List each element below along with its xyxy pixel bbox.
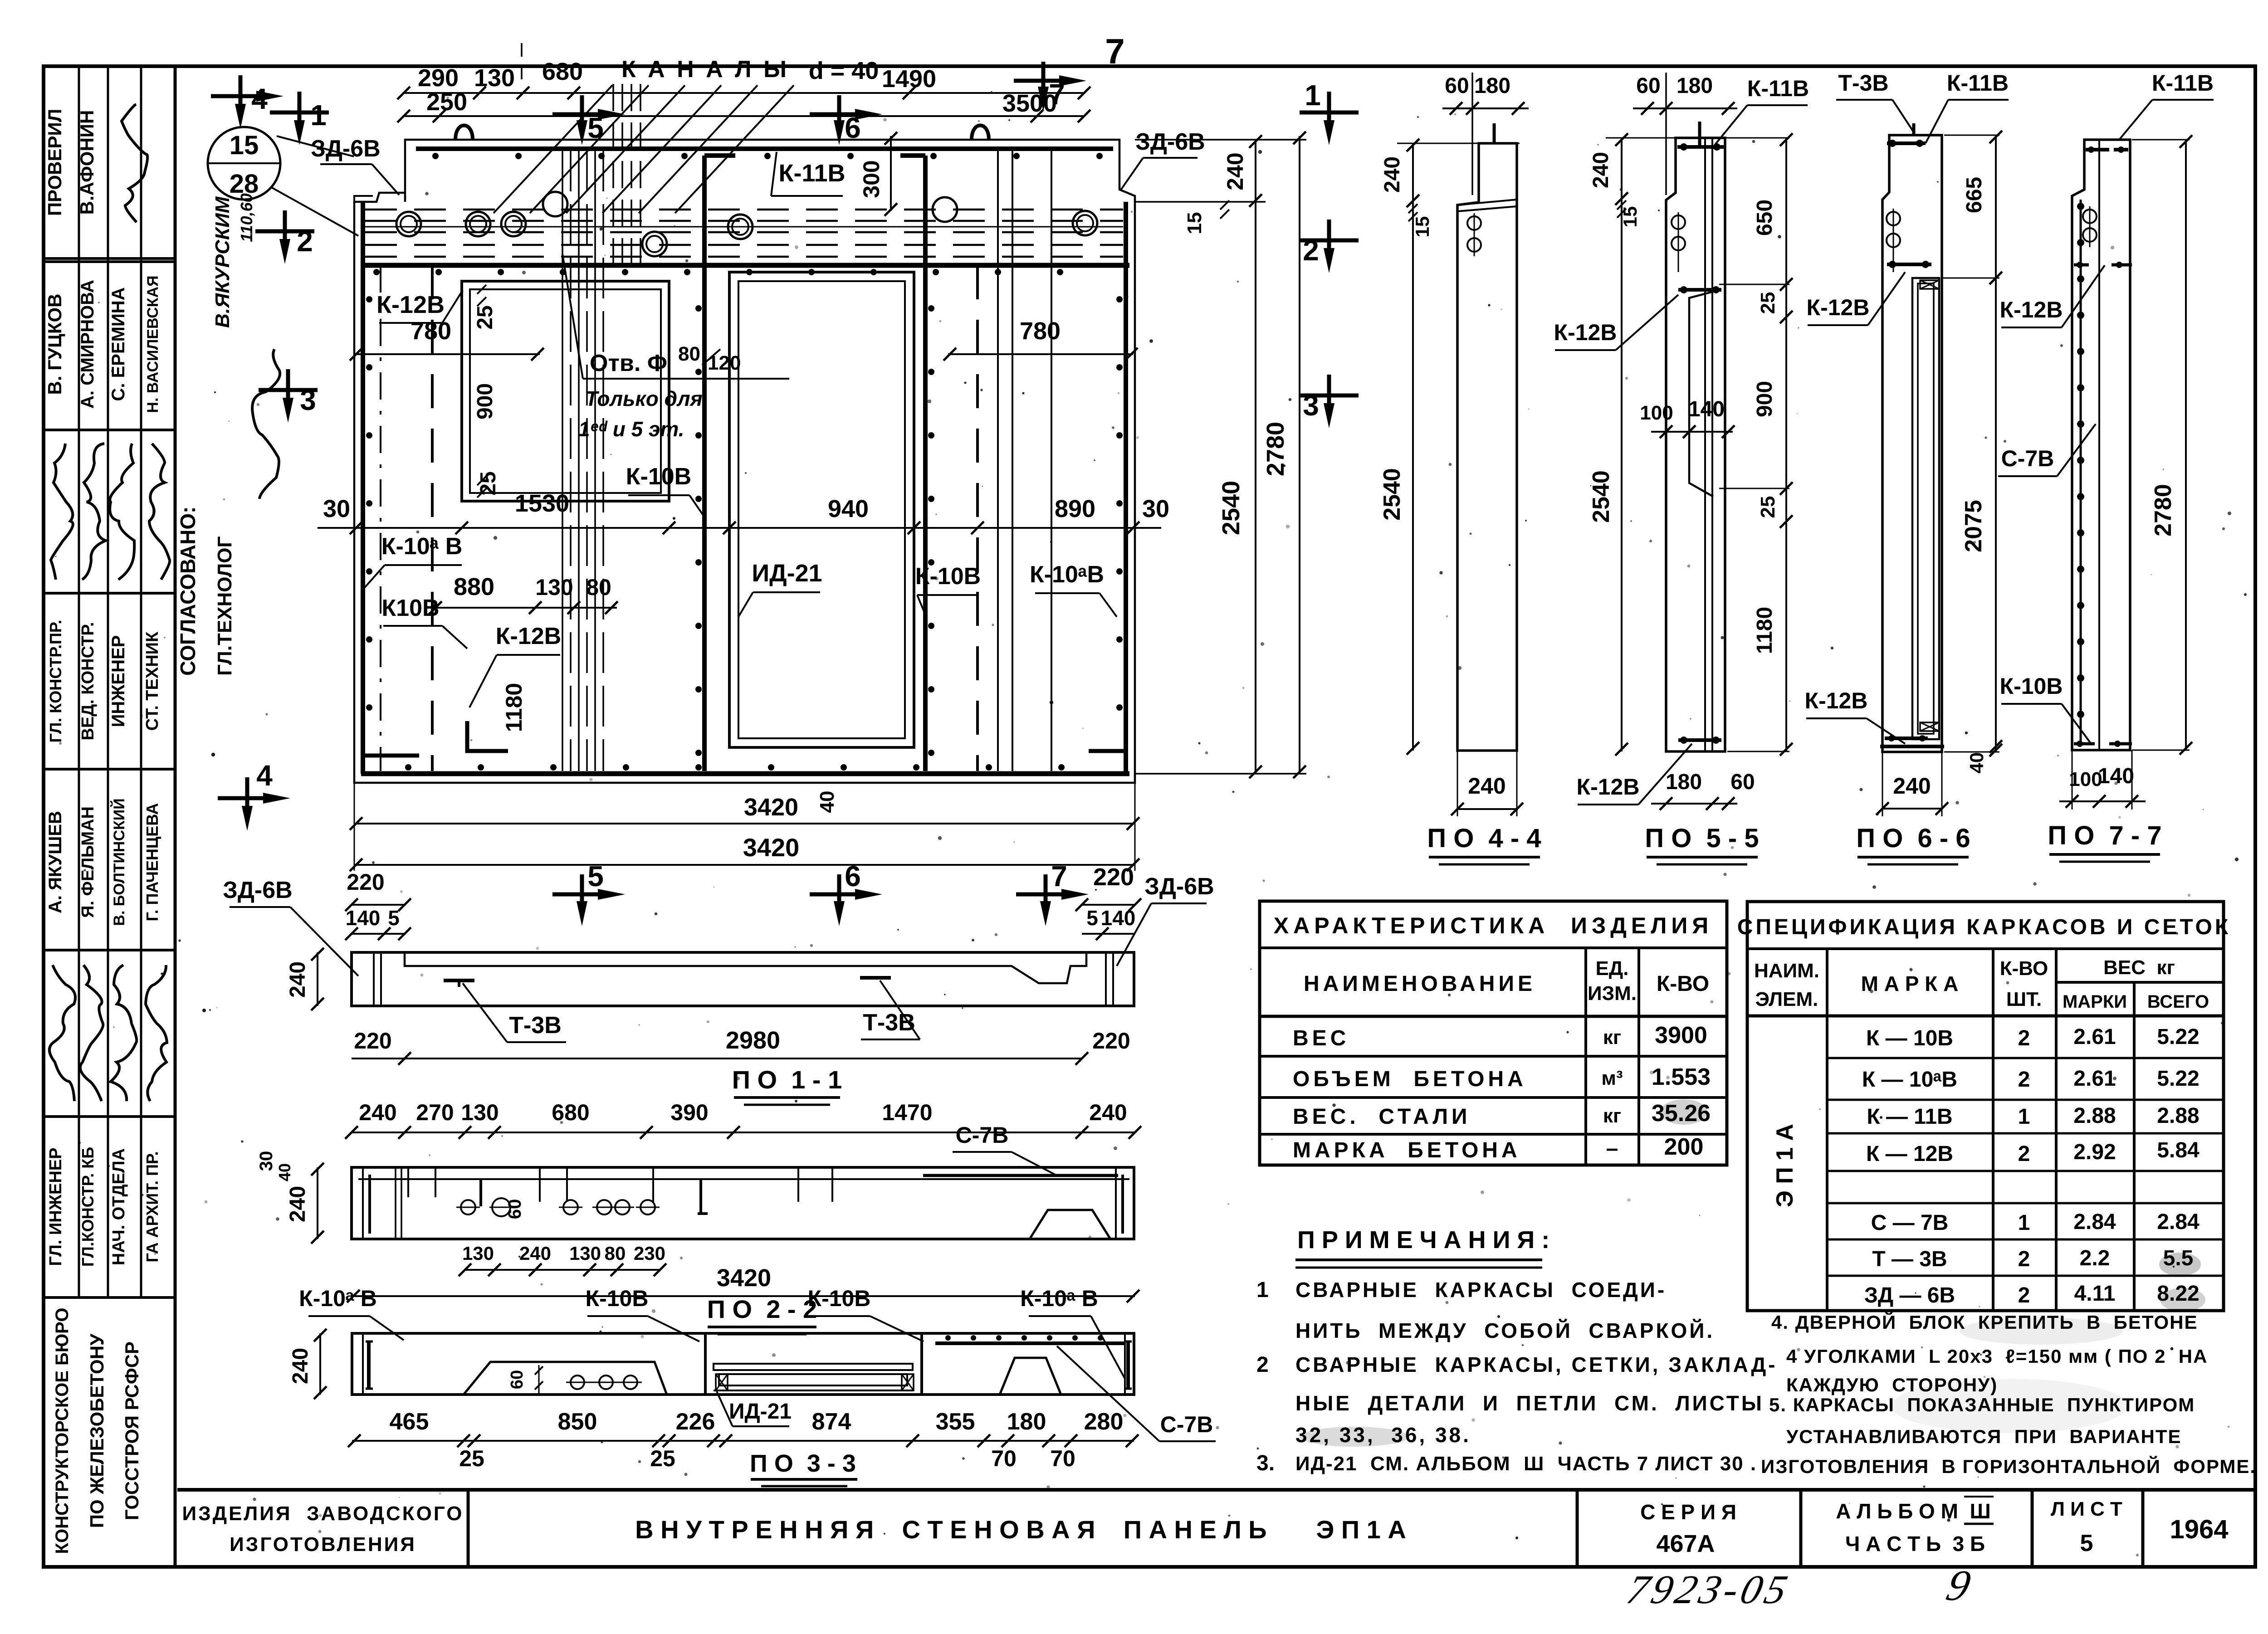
svg-text:880: 880 (454, 573, 494, 600)
title block top line (177, 1488, 2255, 1492)
svg-text:К-11В: К-11В (1747, 76, 1809, 101)
svg-text:465: 465 (390, 1409, 429, 1435)
svg-text:ЗД-6В: ЗД-6В (223, 877, 292, 903)
svg-text:1180: 1180 (1753, 607, 1777, 654)
svg-text:С Е Р И Я: С Е Р И Я (1640, 1500, 1736, 1524)
section 2-2 dim 240 rotated (317, 1167, 318, 1239)
svg-text:3420: 3420 (717, 1264, 771, 1292)
vertical dash guide above sheet top (521, 43, 523, 83)
section 2-2 dims top (352, 1132, 1135, 1133)
strip row: signatures 2 (49, 965, 75, 1101)
svg-text:250: 250 (426, 88, 467, 116)
svg-text:940: 940 (828, 495, 869, 522)
right horizontal dim connectors (1135, 139, 1306, 141)
section marker 3 left (259, 388, 318, 392)
svg-text:1490: 1490 (882, 65, 936, 93)
svg-text:467А: 467А (1656, 1530, 1715, 1557)
section 4-4 dim 240 rotated (1412, 143, 1414, 202)
svg-text:К-10ᵃВ: К-10ᵃВ (1030, 561, 1104, 588)
svg-text:А. СМИРНОВА: А. СМИРНОВА (78, 280, 98, 409)
panel heavy bottom line (361, 771, 1129, 776)
svg-text:НИТЬ МЕЖДУ СОБОЙ СВАРКОЙ.: НИТЬ МЕЖДУ СОБОЙ СВАРКОЙ. (1295, 1319, 1715, 1342)
svg-text:К — 12В: К — 12В (1866, 1142, 1953, 1166)
vertical channel cluster upper extension (612, 84, 614, 263)
svg-text:220: 220 (347, 869, 384, 895)
svg-text:5: 5 (388, 906, 400, 930)
svg-text:240: 240 (1222, 152, 1248, 190)
svg-text:Ч А С Т Ь 3 Б: Ч А С Т Ь 3 Б (1845, 1532, 1985, 1556)
svg-text:1: 1 (2018, 1105, 2030, 1129)
right dim 2540 rotated (1255, 202, 1256, 774)
section 3-3 door cage verticals (704, 1333, 707, 1395)
svg-text:140: 140 (346, 906, 381, 930)
svg-text:2: 2 (2018, 1142, 2030, 1166)
section 3-3 window sill trapezoid (464, 1362, 667, 1395)
bottom dim line 3420 second (354, 864, 1135, 866)
svg-text:К А Н А Л Ы: К А Н А Л Ы (621, 56, 789, 83)
section 5-5 bottom tie (1678, 738, 1721, 742)
svg-text:П О 6 - 6: П О 6 - 6 (1856, 824, 1970, 853)
svg-text:Только для: Только для (585, 387, 703, 410)
panel heavy band bottom line (361, 263, 1129, 268)
svg-text:240: 240 (288, 1348, 313, 1384)
section marker 3 right (1300, 394, 1359, 398)
svg-text:680: 680 (552, 1100, 589, 1125)
section marker 1 left (270, 111, 329, 115)
svg-text:15: 15 (1412, 216, 1433, 238)
weld dots along band bottom (373, 269, 380, 275)
svg-text:6: 6 (845, 112, 861, 144)
svg-text:1: 1 (2018, 1211, 2030, 1235)
svg-text:К-11В: К-11В (1947, 70, 2009, 96)
section 3-3 right end block (1124, 1333, 1126, 1395)
svg-text:В.ЯКУРСКИМ: В.ЯКУРСКИМ (211, 196, 234, 328)
section 4-4 dim 2540 rotated (1412, 202, 1414, 751)
section 1-1 bar outline (352, 952, 1134, 1006)
svg-text:ЗД — 6В: ЗД — 6В (1864, 1283, 1955, 1307)
svg-text:240: 240 (286, 961, 310, 998)
section 5-5 mid tie К-12В (1678, 288, 1721, 292)
svg-text:Л И С Т: Л И С Т (2051, 1498, 2122, 1520)
thin verticals right strip (997, 151, 999, 771)
svg-text:Т — 3В: Т — 3В (1872, 1247, 1947, 1271)
svg-text:280: 280 (1084, 1409, 1124, 1435)
svg-text:ИД-21: ИД-21 (752, 560, 822, 587)
svg-text:130: 130 (462, 1243, 494, 1264)
svg-text:230: 230 (634, 1243, 665, 1264)
detail circle 15/28 (208, 127, 280, 200)
svg-text:1: 1 (1256, 1278, 1269, 1302)
section 6-6 dim 665 rotated (1995, 135, 1997, 752)
section 1-1 dim 220 left top (352, 904, 405, 906)
svg-text:2: 2 (1303, 234, 1319, 267)
section 2-2 vertical hatch left (395, 1167, 396, 1239)
svg-text:100: 100 (1640, 402, 1673, 424)
section 1-1 T-3B anchor left (444, 979, 474, 982)
svg-text:2.88: 2.88 (2073, 1104, 2116, 1128)
section 1-1 dim 140-5 (352, 933, 405, 935)
svg-text:1: 1 (1305, 79, 1321, 112)
section 3-3 С-7В mesh heavy (935, 1341, 1126, 1345)
svg-text:К-10В: К-10В (586, 1286, 649, 1311)
svg-text:П О 3 - 3: П О 3 - 3 (750, 1450, 856, 1477)
svg-text:60: 60 (1730, 770, 1755, 794)
svg-text:2: 2 (297, 225, 313, 258)
svg-text:25: 25 (1757, 292, 1779, 314)
svg-text:180: 180 (1474, 74, 1510, 98)
svg-text:ВСЕГО: ВСЕГО (2147, 992, 2209, 1012)
svg-text:7923-05: 7923-05 (1623, 1567, 1795, 1612)
svg-text:К-11В: К-11В (2152, 70, 2214, 96)
panel heavy left edge (361, 202, 365, 774)
svg-text:м³: м³ (1601, 1067, 1623, 1089)
svg-text:1470: 1470 (882, 1100, 932, 1125)
svg-text:2.84: 2.84 (2157, 1210, 2200, 1234)
svg-text:кг: кг (1603, 1026, 1621, 1049)
svg-text:К-ВО: К-ВО (2000, 957, 2048, 980)
svg-text:СТ. ТЕХНИК: СТ. ТЕХНИК (143, 631, 162, 731)
svg-text:ГЛ.ТЕХНОЛОГ: ГЛ.ТЕХНОЛОГ (214, 536, 236, 676)
section 2-2 bar outline (352, 1167, 1134, 1239)
svg-text:680: 680 (542, 58, 583, 85)
section 5-5 window recess (1689, 292, 1713, 497)
window opening inner (470, 289, 661, 493)
svg-text:В Н У Т Р Е Н Н Я Я С Т Е Н: В Н У Т Р Е Н Н Я Я С Т Е Н О В А Я П А … (635, 1515, 1406, 1544)
svg-text:650: 650 (1753, 200, 1777, 236)
svg-text:220: 220 (1093, 863, 1134, 891)
section 5-5 top tie (1677, 145, 1724, 149)
svg-text:ГЛ. КОНСТР.ПР.: ГЛ. КОНСТР.ПР. (46, 620, 65, 743)
channel band thin line (365, 226, 1123, 228)
svg-text:240: 240 (1380, 156, 1404, 193)
svg-text:ОБЪЕМ БЕТОНА: ОБЪЕМ БЕТОНА (1293, 1067, 1527, 1091)
panel heavy right edge (1124, 202, 1128, 774)
svg-text:200: 200 (1664, 1134, 1704, 1160)
svg-text:2: 2 (1256, 1353, 1269, 1377)
section 2-2 dims bottom (465, 1269, 660, 1271)
dim line 880-130-80 (435, 607, 617, 609)
svg-text:130: 130 (474, 64, 515, 92)
svg-text:П О 5 - 5: П О 5 - 5 (1645, 824, 1759, 853)
svg-text:290: 290 (418, 64, 459, 92)
svg-text:К — 10В: К — 10В (1866, 1026, 1953, 1050)
svg-text:Э П 1 А: Э П 1 А (1772, 1124, 1798, 1207)
section 6-6 hatch box bottom (1920, 722, 1939, 731)
svg-text:180: 180 (1007, 1409, 1046, 1435)
section 2-2 inner structure (358, 1178, 1129, 1180)
left signature strip grid (174, 66, 177, 1567)
svg-text:80: 80 (605, 1243, 626, 1264)
svg-text:130: 130 (535, 575, 573, 600)
channel band dashed lines (365, 209, 1123, 211)
svg-text:180: 180 (1677, 74, 1713, 98)
К-10а dashed cage left (431, 265, 434, 771)
svg-text:2075: 2075 (1960, 500, 1987, 552)
svg-text:ШТ.: ШТ. (2006, 988, 2042, 1010)
svg-text:Т-3В: Т-3В (1838, 70, 1888, 96)
svg-text:80: 80 (678, 343, 700, 365)
svg-text:390: 390 (670, 1100, 708, 1125)
section 5-5 circles (1672, 215, 1685, 229)
К-10а dashed cage right (976, 265, 979, 771)
svg-text:С. ЕРЕМИНА: С. ЕРЕМИНА (108, 288, 128, 401)
section marker 1 right (1300, 111, 1359, 115)
section 7-7 inner face line (2098, 140, 2100, 750)
svg-text:ГОССТРОЯ РСФСР: ГОССТРОЯ РСФСР (121, 1341, 142, 1520)
section marker 4 top-left (211, 94, 270, 98)
svg-text:ВЕД. КОНСТР.: ВЕД. КОНСТР. (78, 622, 98, 740)
section marker 5 top (552, 112, 611, 117)
svg-text:30: 30 (1142, 495, 1169, 522)
section 2-2 circles (461, 1200, 475, 1215)
section 4-4 dims 60-180 (1442, 107, 1529, 109)
section 7-7 bottom ties (2074, 742, 2095, 746)
svg-text:60: 60 (508, 1370, 527, 1389)
section 6-6 bottom ties (1885, 737, 1928, 740)
svg-text:К-10ᵃ В: К-10ᵃ В (381, 533, 463, 560)
svg-text:70: 70 (991, 1446, 1017, 1471)
svg-text:5: 5 (587, 860, 604, 893)
svg-text:3: 3 (300, 384, 316, 416)
svg-text:К-10ᵃ В: К-10ᵃ В (299, 1286, 377, 1311)
svg-text:70: 70 (1050, 1446, 1075, 1471)
svg-text:226: 226 (676, 1409, 715, 1435)
svg-text:15: 15 (1619, 206, 1641, 228)
svg-text:К-12В: К-12В (376, 291, 445, 318)
corner bracket bottom-right (1089, 749, 1126, 753)
svg-text:890: 890 (1055, 495, 1095, 522)
svg-text:60: 60 (1445, 74, 1469, 98)
svg-text:МАРКА БЕТОНА: МАРКА БЕТОНА (1293, 1138, 1521, 1162)
section 7-7 outline (2072, 140, 2130, 750)
svg-text:240: 240 (519, 1243, 551, 1264)
svg-text:СВАРНЫЕ КАРКАСЫ СОЕДИ-: СВАРНЫЕ КАРКАСЫ СОЕДИ- (1295, 1278, 1667, 1302)
svg-text:ВЕС: ВЕС (1293, 1026, 1349, 1050)
section 1-1 T-3B anchor right (860, 976, 891, 980)
dim 780 right (948, 353, 1133, 355)
section 3-3 door sill ИД-21 (714, 1364, 913, 1370)
svg-text:25: 25 (650, 1446, 675, 1471)
top dim line 1 (404, 92, 1084, 94)
section marker 6 top (810, 112, 869, 117)
hatch diagonal leaders to КАНАЛЫ label (494, 85, 612, 213)
svg-text:ВЕС. СТАЛИ: ВЕС. СТАЛИ (1293, 1105, 1471, 1129)
section 2-2 anchor hooks (698, 1179, 708, 1214)
svg-text:40: 40 (1966, 752, 1987, 774)
svg-text:ИЗГОТОВЛЕНИЯ В ГОРИЗОНТАЛЬНОЙ: ИЗГОТОВЛЕНИЯ В ГОРИЗОНТАЛЬНОЙ ФОРМЕ. (1761, 1455, 2256, 1477)
svg-text:2780: 2780 (2150, 484, 2176, 537)
svg-text:3900: 3900 (1655, 1022, 1707, 1049)
section marker 7 top (1014, 79, 1073, 83)
svg-text:60: 60 (505, 1199, 525, 1219)
svg-text:Отв. Ф: Отв. Ф (590, 350, 667, 376)
section 5-5 right dim column (1785, 138, 1787, 751)
window opening outer (462, 281, 669, 501)
main long dim line mid (318, 527, 1161, 529)
svg-text:15: 15 (230, 131, 259, 160)
section 4-4 circles (1467, 216, 1481, 230)
svg-text:3.: 3. (1256, 1451, 1275, 1475)
svg-text:3420: 3420 (744, 794, 798, 821)
svg-text:5: 5 (1086, 906, 1098, 930)
section 5-5 outline (1666, 138, 1725, 751)
svg-text:900: 900 (1753, 381, 1777, 417)
svg-text:Т-3В: Т-3В (863, 1010, 915, 1036)
svg-text:40: 40 (275, 1163, 294, 1181)
svg-text:ЭЛЕМ.: ЭЛЕМ. (1755, 988, 1818, 1010)
svg-text:1: 1 (310, 99, 327, 132)
svg-text:ПО ЖЕЛЕЗОБЕТОНУ: ПО ЖЕЛЕЗОБЕТОНУ (86, 1333, 108, 1528)
svg-text:ГЛ.КОНСТР. КБ: ГЛ.КОНСТР. КБ (78, 1147, 97, 1267)
svg-text:П О 2 - 2: П О 2 - 2 (707, 1295, 817, 1323)
svg-text:60: 60 (1636, 74, 1660, 98)
section 5-5 dims 60-180 (1633, 107, 1737, 109)
svg-text:К-12В: К-12В (1554, 320, 1617, 345)
svg-text:5: 5 (2080, 1530, 2093, 1556)
svg-text:6: 6 (845, 860, 861, 893)
svg-text:80: 80 (586, 575, 611, 600)
svg-text:2540: 2540 (1217, 481, 1245, 535)
svg-text:К — 11В: К — 11В (1867, 1105, 1952, 1129)
svg-text:2540: 2540 (1379, 468, 1405, 521)
svg-text:130: 130 (569, 1243, 601, 1264)
section 4-4 outline (1457, 143, 1517, 751)
svg-text:140: 140 (1101, 906, 1136, 930)
svg-text:7: 7 (1051, 860, 1067, 893)
svg-text:Н. ВАСИЛЕВСКАЯ: Н. ВАСИЛЕВСКАЯ (144, 275, 161, 413)
svg-text:2.92: 2.92 (2073, 1140, 2116, 1164)
section 1-1 right end block (1105, 952, 1107, 1006)
panel top-left step detail (354, 196, 373, 202)
svg-text:ВЕС кг: ВЕС кг (2103, 956, 2175, 979)
svg-text:4: 4 (251, 83, 268, 115)
svg-text:ЕД.: ЕД. (1596, 957, 1629, 980)
section 2-2 right end block (1115, 1167, 1117, 1239)
svg-text:МАРКИ: МАРКИ (2063, 992, 2127, 1012)
section 6-6 hatch box top (1920, 280, 1939, 289)
handwritten document number (1623, 1567, 1795, 1612)
svg-text:4: 4 (256, 759, 273, 792)
title block cell dividers (467, 1490, 470, 1566)
svg-text:К-10ᵃ В: К-10ᵃ В (1020, 1286, 1098, 1311)
door cage К-11В heavy left (704, 156, 735, 771)
svg-text:140: 140 (1688, 397, 1725, 421)
svg-text:355: 355 (936, 1409, 975, 1435)
section 6-6 mid tie (1887, 263, 1931, 266)
svg-text:ГА АРХИТ. ПР.: ГА АРХИТ. ПР. (143, 1151, 161, 1262)
svg-text:665: 665 (1962, 177, 1986, 213)
svg-text:К-12В: К-12В (496, 623, 561, 649)
svg-text:2: 2 (2018, 1283, 2030, 1307)
svg-text:110,60: 110,60 (237, 193, 256, 242)
svg-text:2.84: 2.84 (2073, 1210, 2116, 1234)
svg-text:30: 30 (323, 495, 350, 522)
svg-text:СОГЛАСОВАНО:: СОГЛАСОВАНО: (176, 507, 200, 676)
svg-text:5: 5 (587, 112, 604, 144)
panel heavy band top line (416, 146, 1113, 151)
section 2-2 right trapezoid (1030, 1210, 1110, 1239)
door opening outer (729, 272, 914, 747)
svg-text:П О 1 - 1: П О 1 - 1 (732, 1065, 842, 1094)
section 6-6 top pin (1912, 123, 1916, 135)
svg-text:В. ГУЦКОВ: В. ГУЦКОВ (44, 294, 65, 395)
bottom dim line 3420 first (354, 823, 1135, 824)
section marker 2 left (255, 229, 314, 234)
dim 300 rotated (890, 136, 892, 211)
svg-text:А Л Ь Б О М Ш: А Л Ь Б О М Ш (1836, 1499, 1990, 1523)
section 3-3 bar outline (352, 1333, 1134, 1395)
svg-text:С-7В: С-7В (1160, 1412, 1213, 1437)
svg-text:К-ВО: К-ВО (1657, 972, 1709, 996)
svg-text:270: 270 (416, 1100, 454, 1125)
svg-text:К10В: К10В (381, 595, 439, 621)
svg-text:НЫЕ ДЕТАЛИ И ПЕТЛИ СМ. ЛИ: НЫЕ ДЕТАЛИ И ПЕТЛИ СМ. ЛИСТЫ (1295, 1391, 1764, 1415)
section 6-6 circles (1887, 212, 1900, 225)
svg-text:С-7В: С-7В (2001, 446, 2054, 471)
section 1-1 inner recess line (405, 952, 1086, 983)
section 1-1 dim 220 bottom left (352, 1058, 405, 1059)
svg-text:240: 240 (1893, 773, 1931, 799)
svg-text:240: 240 (1468, 773, 1505, 799)
section 3-3 dims bottom line1 (352, 1440, 1134, 1442)
corner bracket bottom-left 1 (363, 726, 419, 756)
section 7-7 mesh line with dots (2080, 200, 2082, 745)
weld dots along door cage (695, 305, 702, 312)
svg-text:К-11В: К-11В (778, 160, 845, 187)
door cage К-11В heavy right (900, 156, 925, 771)
svg-text:П Р И М Е Ч А Н И Я :: П Р И М Е Ч А Н И Я : (1297, 1226, 1549, 1254)
section 5-5 dim 240 rotated (1621, 138, 1623, 200)
svg-text:15: 15 (1183, 212, 1206, 234)
svg-text:5.84: 5.84 (2157, 1138, 2200, 1162)
svg-text:1530: 1530 (515, 490, 569, 517)
svg-text:ИД-21: ИД-21 (729, 1400, 792, 1424)
svg-text:СВАРНЫЕ КАРКАСЫ, СЕТКИ, ЗАКЛА: СВАРНЫЕ КАРКАСЫ, СЕТКИ, ЗАКЛАД- (1295, 1353, 1778, 1376)
svg-text:НАИМ.: НАИМ. (1754, 960, 1819, 982)
svg-text:К-10В: К-10В (626, 463, 691, 490)
svg-text:ЗД-6В: ЗД-6В (1135, 129, 1205, 155)
svg-text:7: 7 (1049, 78, 1065, 111)
svg-text:С-7В: С-7В (956, 1122, 1009, 1148)
svg-text:7: 7 (1105, 31, 1124, 71)
section 7-7 mid ties (2074, 263, 2089, 267)
svg-text:130: 130 (461, 1100, 499, 1125)
section 2-2 dim 3420 (352, 1295, 1135, 1297)
svg-text:П О 7 - 7: П О 7 - 7 (2048, 821, 2161, 850)
svg-text:А. ЯКУШЕВ: А. ЯКУШЕВ (45, 811, 65, 913)
svg-text:1180: 1180 (501, 683, 527, 732)
bottom extension lines (354, 783, 355, 871)
svg-text:1ᵉᵈ и 5 эт.: 1ᵉᵈ и 5 эт. (578, 417, 684, 441)
section 2-2 left block lines (362, 1167, 364, 1239)
svg-text:2.2: 2.2 (2080, 1246, 2110, 1270)
section marker 7 bottom (1016, 893, 1075, 897)
svg-text:Т-3В: Т-3В (509, 1012, 562, 1039)
svg-text:2540: 2540 (1588, 470, 1614, 523)
svg-text:2: 2 (2018, 1026, 2030, 1050)
svg-text:900: 900 (473, 383, 497, 419)
svg-text:780: 780 (1020, 317, 1061, 345)
svg-text:ИЗМ.: ИЗМ. (1588, 982, 1637, 1005)
svg-text:180: 180 (1666, 770, 1702, 794)
section 3-3 right trapezoid (1000, 1358, 1061, 1395)
section 2-2 С-7В mesh line (923, 1174, 1118, 1177)
lifting loop left (455, 126, 473, 140)
svg-text:25: 25 (473, 305, 497, 329)
section 5-5 dim 100-140 (1651, 431, 1733, 433)
svg-text:240: 240 (1589, 152, 1613, 188)
dash-dot line left (380, 265, 381, 771)
